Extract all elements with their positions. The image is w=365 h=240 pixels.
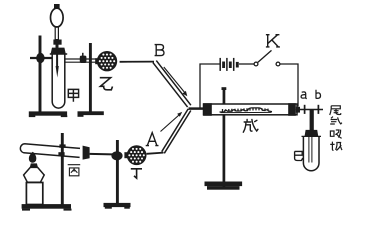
iron stand S5 base — [205, 182, 243, 187]
flow arrow B — [164, 67, 185, 93]
packing inside WU — [220, 108, 273, 113]
iron stand S3 rod — [61, 133, 64, 206]
iron stand S4 clamp — [111, 151, 122, 160]
side tube JIA to YI upper wall — [65, 58, 97, 60]
tail gas absorption text WEI (CJK drawn) — [330, 106, 341, 115]
iron stand S2 rod — [89, 43, 92, 112]
switch K lever — [258, 50, 272, 62]
separating funnel bulb — [51, 8, 64, 27]
stopper at BING mouth — [83, 146, 90, 160]
label DING (CJK drawn) — [131, 169, 142, 178]
wire battery to switch — [239, 63, 254, 65]
alcohol lamp flame — [29, 152, 36, 163]
side tube JIA to YI lower wall — [65, 61, 97, 63]
label K — [266, 35, 280, 47]
test tube JIA rim — [50, 53, 67, 55]
label JI (CJK drawn) — [295, 151, 303, 160]
separating funnel stopper — [54, 4, 60, 9]
down tube into JI — [310, 110, 314, 131]
switch K contact 2 — [276, 62, 280, 66]
delivery tube BING to DING — [90, 153, 113, 156]
separating funnel stem — [55, 27, 58, 40]
bulb YI — [95, 51, 117, 71]
test tube JI rim — [302, 135, 322, 137]
text SHOU (CJK drawn) — [330, 142, 342, 151]
circuit left wire — [200, 64, 220, 108]
tube B diagonal wall 1 — [153, 63, 188, 108]
tube A horizontal — [147, 153, 164, 154]
test tube JIA body — [52, 54, 65, 108]
iron stand S4 base — [104, 203, 131, 207]
iron stand S1 rod — [39, 36, 42, 112]
hard glass tube WU outline — [204, 104, 298, 115]
joint tick a — [304, 105, 306, 114]
separating funnel lower stem — [56, 45, 59, 48]
tube WU right stopper/electrode — [288, 103, 296, 116]
tube A diagonal wall 1 — [162, 109, 189, 152]
label B — [155, 45, 164, 56]
iron stand S1 clamp knob — [36, 53, 44, 63]
iron stand S1 base — [29, 111, 67, 115]
alcohol lamp cap — [30, 163, 38, 167]
label YI (CJK drawn) — [100, 78, 113, 90]
text QI (CJK drawn) — [330, 117, 342, 124]
separating funnel stopcock — [53, 40, 61, 45]
clamp stub above WU — [223, 89, 226, 105]
label A — [146, 133, 159, 146]
label b — [316, 90, 321, 99]
bulb DING — [124, 145, 146, 165]
outlet line from WU — [296, 109, 323, 111]
clamp jaws on BING — [59, 144, 65, 147]
stopper of JI — [305, 130, 319, 137]
test tube JI body — [303, 137, 319, 171]
test tube BING (tilted) — [20, 144, 80, 158]
tube B diagonal wall 2 — [156, 61, 191, 106]
iron stand S2 clamp — [80, 56, 87, 63]
iron stand S1 clamp arm — [30, 57, 53, 59]
switch K contact 1 — [254, 62, 258, 66]
iron stand S2 base — [78, 111, 104, 115]
test tube JIA rubber stopper — [51, 48, 66, 54]
label BING (CJK drawn) — [68, 165, 81, 176]
text XI (CJK drawn) — [330, 130, 341, 139]
Y junction stub — [189, 107, 204, 110]
tube A diagonal wall 2 — [164, 111, 191, 154]
label JIA (CJK drawn) — [68, 89, 78, 101]
alcohol lamp body — [24, 167, 45, 182]
flow arrow A — [161, 115, 180, 132]
tube WU left stopper/electrode — [203, 103, 212, 116]
joint tick b — [317, 105, 319, 114]
delivery tube inside JI — [309, 137, 312, 163]
alcohol lamp block — [26, 183, 42, 205]
label WU (CJK drawn) — [243, 119, 258, 132]
lamp stand base bar — [22, 204, 71, 209]
battery — [220, 58, 237, 71]
iron stand S4 rod — [116, 140, 119, 204]
circuit right wire — [280, 64, 298, 107]
iron stand S5 rod — [223, 115, 226, 188]
funnel stem tip inside tube — [56, 54, 58, 67]
label a — [301, 92, 307, 99]
tube B horizontal — [120, 61, 154, 63]
